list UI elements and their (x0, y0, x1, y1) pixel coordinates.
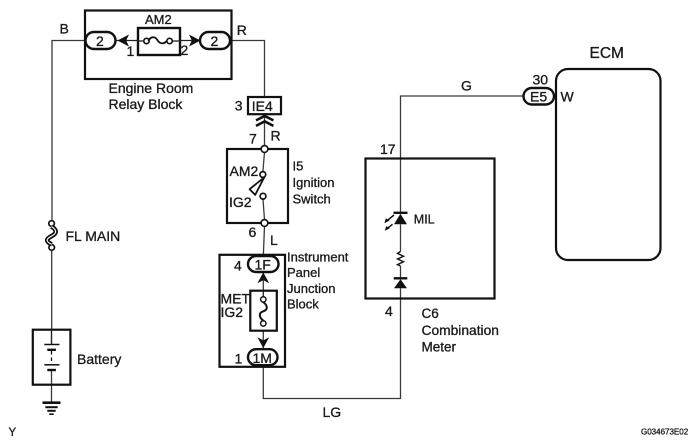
svg-text:17: 17 (380, 141, 396, 157)
svg-text:IG2: IG2 (229, 194, 252, 210)
svg-text:1F: 1F (255, 257, 271, 273)
svg-text:1: 1 (235, 351, 243, 367)
svg-text:AM2: AM2 (230, 163, 259, 179)
svg-text:E5: E5 (530, 89, 547, 105)
svg-text:R: R (237, 22, 247, 38)
svg-text:Battery: Battery (77, 351, 121, 367)
svg-text:Ignition: Ignition (293, 175, 335, 190)
svg-text:Instrument: Instrument (287, 249, 349, 264)
svg-text:C6: C6 (422, 306, 439, 321)
svg-text:B: B (60, 21, 69, 37)
svg-text:3: 3 (235, 98, 243, 114)
svg-text:6: 6 (249, 224, 257, 240)
svg-text:Relay Block: Relay Block (109, 96, 184, 112)
svg-text:2: 2 (181, 42, 189, 58)
svg-text:ECM: ECM (590, 45, 624, 62)
svg-text:Combination: Combination (422, 323, 499, 338)
svg-text:IE4: IE4 (252, 98, 273, 114)
svg-text:30: 30 (533, 72, 549, 88)
svg-text:2: 2 (96, 33, 104, 49)
svg-text:G: G (461, 78, 472, 94)
svg-text:4: 4 (385, 303, 393, 319)
svg-text:Engine Room: Engine Room (109, 80, 194, 96)
svg-text:I5: I5 (293, 159, 304, 174)
svg-text:1: 1 (127, 43, 135, 59)
svg-text:W: W (561, 89, 575, 105)
svg-text:Panel: Panel (287, 265, 320, 280)
svg-text:R: R (271, 128, 281, 144)
svg-text:Y: Y (9, 427, 17, 439)
svg-text:Block: Block (287, 297, 319, 312)
svg-text:2: 2 (211, 33, 219, 49)
svg-text:L: L (270, 232, 278, 248)
svg-text:7: 7 (249, 131, 257, 147)
svg-text:IG2: IG2 (221, 304, 244, 320)
svg-text:AM2: AM2 (145, 12, 172, 27)
svg-text:G034673E02: G034673E02 (641, 428, 689, 437)
svg-text:LG: LG (323, 404, 342, 420)
svg-text:Meter: Meter (422, 340, 457, 355)
svg-text:FL MAIN: FL MAIN (66, 228, 121, 244)
svg-text:MIL: MIL (414, 213, 435, 227)
svg-text:Switch: Switch (293, 192, 331, 207)
svg-text:Junction: Junction (287, 281, 335, 296)
svg-text:4: 4 (234, 258, 242, 274)
svg-text:1M: 1M (253, 350, 272, 366)
